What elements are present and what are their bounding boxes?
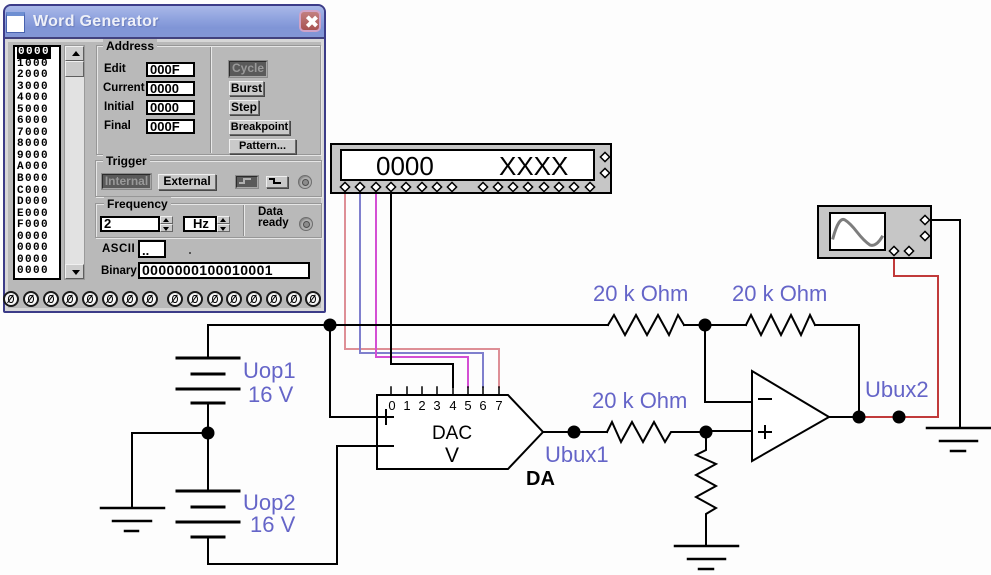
svg-text:V: V	[445, 444, 459, 467]
junction battery mid node	[202, 427, 215, 440]
svg-text:DAC: DAC	[432, 423, 472, 444]
wire: R2 to feedback corner down to output	[815, 325, 859, 417]
Frequency group	[95, 203, 322, 238]
wire: junction B to op-amp - input	[705, 325, 752, 402]
svg-text:0: 0	[388, 398, 395, 413]
Address group box	[96, 45, 321, 155]
trigger radio	[298, 175, 312, 189]
junction D	[853, 411, 866, 424]
Cycle button (pressed)	[229, 61, 267, 77]
wire: WG icon terminal 3 to DAC pin 5 (magenta)	[376, 190, 468, 387]
svg-text:20 k Ohm: 20 k Ohm	[592, 388, 687, 413]
titlebar separator	[5, 37, 324, 39]
Address group divider	[210, 47, 211, 153]
wire: junction C to op-amp + input	[706, 430, 752, 432]
ground (below R4)	[675, 546, 738, 569]
svg-text:DA: DA	[526, 468, 555, 490]
wire: WG icon terminal 2 to DAC pin 6 (blue)	[360, 190, 483, 387]
wire: WG icon terminal 1 to DAC pin 7 (pink)	[345, 190, 499, 387]
battery Uop2	[177, 433, 239, 537]
Trigger group	[95, 160, 322, 197]
svg-text:20 k Ohm: 20 k Ohm	[732, 281, 827, 306]
svg-text:5: 5	[464, 398, 471, 413]
ground (left)	[101, 508, 164, 531]
junction node A	[324, 319, 337, 332]
resistor R3 20 k Ohm (lower)	[607, 422, 675, 442]
list scrollbar	[64, 45, 85, 280]
wire: DAC output to R3	[543, 431, 607, 433]
svg-text:4: 4	[449, 398, 456, 413]
Step button	[229, 100, 259, 115]
wire: Uop2 bottom to DAC - input	[208, 446, 377, 564]
wire: battery mid node to left ground	[132, 433, 208, 508]
svg-text:1: 1	[403, 398, 410, 413]
Burst button	[229, 81, 264, 96]
falling edge button	[266, 176, 288, 188]
wire: R1 to junction B	[684, 324, 705, 326]
red wire: junction D to junction E	[859, 416, 899, 418]
wire: WG icon terminal 4 to DAC pin 4 (black)	[391, 190, 453, 387]
op-amp U2	[752, 371, 829, 461]
junction B	[699, 319, 712, 332]
ground (right)	[927, 428, 990, 451]
svg-text:6: 6	[479, 398, 486, 413]
svg-text:7: 7	[495, 398, 502, 413]
word generator icon	[331, 144, 611, 193]
svg-text:0000: 0000	[376, 151, 434, 181]
resistor R4 (vertical to ground)	[696, 432, 716, 546]
svg-text:3: 3	[433, 398, 440, 413]
ASCII row	[102, 243, 135, 255]
resistor R2 20 k Ohm (upper right)	[746, 315, 815, 335]
svg-text:Uop1: Uop1	[243, 358, 296, 383]
rising edge button (pressed)	[236, 176, 258, 188]
junction Ubux1	[568, 426, 581, 439]
External button	[158, 174, 216, 190]
address list box	[13, 45, 61, 280]
red wire: junction E to oscilloscope input	[894, 253, 938, 417]
junction E	[893, 411, 906, 424]
svg-text:Ubux1: Ubux1	[545, 442, 609, 467]
data ready radio	[299, 217, 313, 231]
junction C	[700, 426, 713, 439]
wire: junction B to R2	[705, 324, 746, 326]
oscilloscope icon	[818, 206, 931, 258]
DAC U1	[377, 387, 543, 469]
battery Uop1	[177, 325, 239, 433]
Breakpoint button	[229, 120, 290, 135]
resistor R1 20 k Ohm (upper left)	[608, 315, 684, 335]
svg-text:20 k Ohm: 20 k Ohm	[593, 281, 688, 306]
wire: node A to DAC + input	[330, 325, 377, 417]
bottom terminal row	[4, 5, 6, 7]
wire: R3 to junction C	[675, 431, 706, 433]
svg-text:XXXX: XXXX	[499, 151, 568, 181]
svg-text:16 V: 16 V	[248, 382, 294, 407]
wire: node A horizontal bus	[208, 324, 608, 326]
black wire: oscilloscope ground terminal to right ground	[928, 220, 960, 428]
title bar	[5, 6, 324, 37]
Binary row	[101, 265, 137, 277]
svg-text:2: 2	[418, 398, 425, 413]
frequency group divider	[243, 205, 244, 236]
word generator instrument window	[3, 4, 326, 313]
Pattern button	[229, 139, 296, 154]
svg-text:16 V: 16 V	[250, 512, 296, 537]
svg-text:Ubux2: Ubux2	[865, 377, 929, 402]
wire: op-amp output	[829, 416, 859, 418]
Internal button (pressed)	[102, 174, 151, 189]
